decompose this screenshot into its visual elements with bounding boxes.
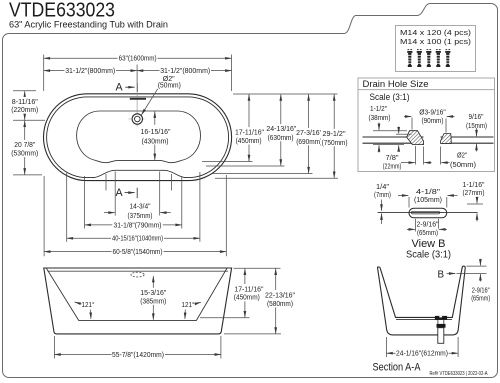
svg-text:Section A-A: Section A-A <box>373 362 422 374</box>
svg-text:(15mm): (15mm) <box>466 121 487 130</box>
svg-text:(38mm): (38mm) <box>369 113 391 122</box>
svg-text:63"(1600mm): 63"(1600mm) <box>119 54 157 63</box>
svg-text:(450mm): (450mm) <box>234 293 260 302</box>
svg-text:(580mm): (580mm) <box>267 299 293 308</box>
svg-text:Scale (3:1): Scale (3:1) <box>370 92 410 103</box>
svg-text:(50mm): (50mm) <box>450 160 476 169</box>
svg-text:(385mm): (385mm) <box>140 297 166 306</box>
svg-text:(27mm): (27mm) <box>463 188 485 197</box>
svg-text:A: A <box>115 81 123 93</box>
svg-text:60-5/8"(1540mm): 60-5/8"(1540mm) <box>113 247 163 256</box>
svg-text:VTDE633023: VTDE633023 <box>9 0 115 21</box>
svg-text:(22mm): (22mm) <box>383 161 402 170</box>
svg-text:(530mm): (530mm) <box>11 149 38 158</box>
svg-text:121°: 121° <box>182 300 195 309</box>
svg-text:(375mm): (375mm) <box>128 211 153 220</box>
svg-text:55-7/8"(1420mm): 55-7/8"(1420mm) <box>112 350 164 359</box>
svg-text:29-1/2": 29-1/2" <box>323 129 346 138</box>
svg-text:31-1/2"(800mm): 31-1/2"(800mm) <box>65 66 115 75</box>
svg-text:(50mm): (50mm) <box>158 81 181 90</box>
svg-text:M14 x 100 (1 pcs): M14 x 100 (1 pcs) <box>400 37 471 46</box>
svg-text:A: A <box>115 187 123 199</box>
svg-text:(450mm): (450mm) <box>236 136 262 145</box>
svg-text:(750mm): (750mm) <box>322 138 348 147</box>
svg-text:1-1/2": 1-1/2" <box>370 104 387 113</box>
svg-text:(7mm): (7mm) <box>374 190 391 199</box>
svg-text:31-1/8"(790mm): 31-1/8"(790mm) <box>114 220 162 229</box>
svg-text:14-3/4": 14-3/4" <box>130 201 151 210</box>
svg-text:Ref# VTDE633023 | 2022-02-A: Ref# VTDE633023 | 2022-02-A <box>430 371 488 377</box>
svg-text:63" Acrylic Freestanding Tub w: 63" Acrylic Freestanding Tub with Drain <box>9 19 168 30</box>
svg-text:Scale (3:1): Scale (3:1) <box>406 249 451 260</box>
svg-text:17-11/16": 17-11/16" <box>235 127 264 136</box>
svg-text:View B: View B <box>412 238 446 250</box>
svg-text:(630mm): (630mm) <box>268 133 294 142</box>
svg-text:24-13/16": 24-13/16" <box>266 124 296 133</box>
svg-text:M14 x 120 (4 pcs): M14 x 120 (4 pcs) <box>400 28 471 37</box>
svg-text:9/16": 9/16" <box>469 112 484 121</box>
svg-text:(105mm): (105mm) <box>414 195 442 204</box>
svg-text:(430mm): (430mm) <box>142 137 169 146</box>
svg-text:(90mm): (90mm) <box>422 116 444 125</box>
svg-text:Drain Hole Size: Drain Hole Size <box>363 79 429 90</box>
svg-text:2-9/16": 2-9/16" <box>417 219 439 228</box>
svg-text:B: B <box>438 270 445 281</box>
svg-text:Ø2": Ø2" <box>457 151 467 160</box>
svg-text:24-1/16"(612mm): 24-1/16"(612mm) <box>396 349 448 358</box>
svg-text:121°: 121° <box>82 300 95 309</box>
svg-text:(65mm): (65mm) <box>471 294 490 303</box>
svg-text:(690mm): (690mm) <box>296 137 322 146</box>
svg-text:27-3/16": 27-3/16" <box>296 128 322 137</box>
svg-text:(65mm): (65mm) <box>417 228 438 237</box>
svg-text:16-15/16": 16-15/16" <box>141 127 171 136</box>
svg-text:40-15/16"(1040mm): 40-15/16"(1040mm) <box>112 233 163 242</box>
svg-text:(220mm): (220mm) <box>11 105 38 114</box>
